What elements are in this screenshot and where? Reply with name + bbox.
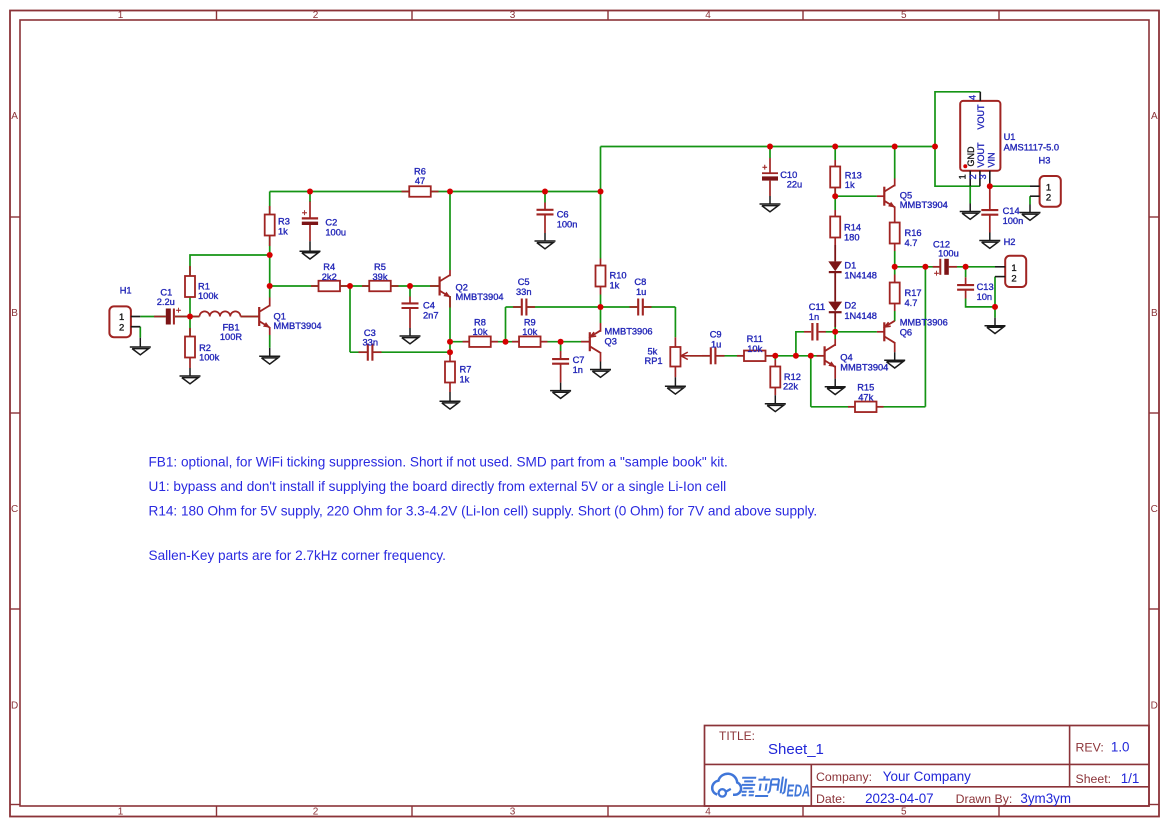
resistor R1 (185, 276, 195, 297)
svg-text:R16: R16 (905, 228, 922, 238)
title block outline (705, 726, 1150, 807)
svg-text:R8: R8 (474, 317, 486, 327)
wire U1 VOUT loop top (935, 92, 980, 147)
svg-text:1u: 1u (636, 287, 646, 297)
ground under RP1 (674, 377, 676, 386)
svg-text:C6: C6 (557, 210, 569, 220)
svg-text:R13: R13 (845, 170, 862, 180)
svg-text:+: + (176, 306, 181, 316)
junction dot 23 (892, 264, 898, 270)
junction dot 18 (808, 353, 814, 359)
capacitor C2 (309, 202, 311, 219)
svg-text:100n: 100n (1003, 216, 1024, 226)
svg-text:Company:: Company: (816, 770, 872, 784)
transistor Q6 PNP (883, 322, 885, 341)
svg-text:C1: C1 (160, 287, 172, 297)
capacitor C7 (552, 358, 569, 360)
wire R15 right vertical to output node (924, 267, 926, 407)
svg-text:C: C (1151, 504, 1158, 515)
connector H1 (109, 306, 130, 337)
svg-text:1: 1 (957, 174, 967, 179)
wire Q5 collector vertical (894, 147, 896, 179)
svg-text:180: 180 (844, 232, 860, 242)
capacitor C4 (402, 302, 419, 304)
wire C3 row right (374, 351, 450, 353)
svg-text:R12: R12 (784, 372, 801, 382)
wire C10 stub (769, 147, 771, 159)
wire Q6 base (835, 331, 877, 333)
ground under H3 pin2 (1029, 205, 1031, 213)
resistor R10 (596, 266, 606, 287)
frame row ticks (10, 216, 20, 218)
svg-text:R3: R3 (278, 217, 290, 227)
wire C3 row left (350, 351, 367, 353)
EasyEDA logo hanzi li (755, 776, 771, 796)
junction dot 24 (922, 264, 928, 270)
resistor R9 (519, 336, 541, 347)
ground under R2 (189, 368, 191, 376)
ground under Q1 emitter (269, 348, 271, 357)
svg-text:A: A (1151, 111, 1158, 122)
svg-text:D1: D1 (844, 260, 856, 270)
wire C8 right to RP1 corner (644, 306, 675, 308)
svg-text:Q4: Q4 (840, 353, 852, 363)
svg-text:2023-04-07: 2023-04-07 (865, 791, 934, 806)
title block logo cell divider (810, 764, 812, 806)
svg-text:1n: 1n (809, 312, 819, 322)
capacitor C12 (933, 266, 941, 268)
connector H2 (1005, 256, 1026, 287)
junction dot 6 (407, 283, 413, 289)
svg-text:100k: 100k (199, 352, 220, 362)
wire C11 left branch (796, 332, 804, 356)
wire U1 GND pin to ground (969, 186, 971, 203)
svg-text:100u: 100u (325, 228, 346, 238)
svg-text:C8: C8 (634, 277, 646, 287)
junction dot 27 (987, 183, 993, 189)
diode D2 1N4148 (828, 302, 842, 312)
svg-text:+: + (762, 163, 767, 173)
junction dot 9 (447, 349, 453, 355)
junction dot 21 (832, 329, 838, 335)
wire output node row to C12 (895, 266, 941, 268)
svg-text:100u: 100u (938, 249, 959, 259)
svg-text:Sallen-Key parts are for 2.7kH: Sallen-Key parts are for 2.7kHz corner f… (149, 548, 446, 563)
junction dot 17 (793, 353, 799, 359)
ground under C7 (560, 383, 562, 391)
svg-text:100k: 100k (198, 291, 219, 301)
junction dot 15 (767, 144, 773, 150)
junction dot 26 (963, 264, 969, 270)
svg-text:4.7: 4.7 (905, 238, 918, 248)
regulator U1 AMS1117-5.0 (960, 101, 1000, 171)
capacitor C6 (537, 209, 554, 211)
svg-text:GND: GND (966, 146, 976, 167)
svg-text:D: D (1151, 701, 1158, 712)
capacitor C9 (710, 347, 712, 364)
svg-text:10k: 10k (473, 327, 488, 337)
svg-text:B: B (11, 308, 18, 319)
junction dot 19 (832, 144, 838, 150)
svg-text:D2: D2 (844, 301, 856, 311)
resistor R6 (409, 186, 431, 197)
junction dot 5 (347, 283, 353, 289)
svg-text:VIN: VIN (987, 152, 997, 167)
junction dot 3 (267, 283, 273, 289)
svg-text:R9: R9 (524, 317, 536, 327)
svg-text:1N4148: 1N4148 (844, 311, 877, 321)
junction dot 8 (447, 339, 453, 345)
junction dot 1 (187, 314, 193, 320)
ground under C4 (409, 328, 411, 336)
EasyEDA logo hanzi chuang (767, 777, 786, 794)
wire C11 right to D2 node (826, 331, 836, 333)
wire Q4 base node down to R15 (810, 356, 812, 407)
svg-text:1u: 1u (711, 340, 721, 350)
wire R1 bottom / C1-FB1 node / R2 top vertical (189, 276, 191, 337)
svg-text:Q5: Q5 (900, 190, 912, 200)
svg-text:4: 4 (968, 95, 978, 100)
ferrite bead FB1 (200, 311, 241, 316)
svg-text:FB1: optional, for WiFi tickin: FB1: optional, for WiFi ticking suppress… (149, 455, 728, 470)
capacitor C8 (637, 299, 639, 316)
svg-text:10k: 10k (522, 327, 537, 337)
junction dot 11 (542, 189, 548, 195)
wire D2 to C11 node to Q4 collector (834, 327, 836, 339)
title block row divider 2 (811, 786, 1149, 788)
wire C5 C8 row middle segment (528, 306, 637, 308)
svg-text:5: 5 (901, 10, 907, 21)
junction dot 7 (447, 189, 453, 195)
svg-text:+: + (934, 268, 939, 278)
svg-text:MMBT3904: MMBT3904 (274, 321, 322, 331)
wire C7 stub (560, 342, 562, 351)
wire C2 stub (309, 192, 311, 203)
svg-text:Sheet_1: Sheet_1 (768, 741, 824, 758)
wire Q1 emitter to ground (269, 335, 271, 348)
svg-text:C: C (11, 504, 18, 515)
svg-text:5: 5 (901, 807, 907, 818)
svg-text:1k: 1k (845, 180, 855, 190)
junction dot 12 (558, 339, 564, 345)
svg-text:REV:: REV: (1076, 741, 1104, 755)
wire H1 pin1 to C1 left (140, 316, 166, 318)
svg-text:C4: C4 (423, 301, 435, 311)
svg-text:3: 3 (510, 10, 516, 21)
wire C13 top stub (965, 267, 967, 278)
svg-text:2: 2 (119, 322, 124, 333)
ground under R7 (449, 392, 451, 401)
svg-text:33n: 33n (516, 287, 532, 297)
resistor R17 (890, 283, 900, 304)
capacitor C11 (811, 323, 813, 341)
wire R10 bottom to node (600, 295, 602, 308)
potentiometer RP1 (670, 347, 680, 367)
wire R17 bottom to Q6 emitter (894, 311, 896, 321)
svg-text:Q1: Q1 (274, 311, 286, 321)
svg-text:R4: R4 (323, 262, 335, 272)
ground under C6 (544, 233, 546, 241)
svg-text:MMBT3906: MMBT3906 (605, 327, 653, 337)
resistor R7 (445, 362, 455, 383)
wire C3 left vertical to R4 R5 node (349, 286, 351, 352)
wire supply rail2 y191 (270, 191, 601, 193)
capacitor C1 (154, 316, 166, 318)
wire R12 stub (774, 356, 776, 360)
wire C5 C8 row left segment (506, 306, 521, 308)
capacitor C10 (769, 158, 771, 173)
svg-text:2: 2 (313, 807, 319, 818)
svg-text:MMBT3904: MMBT3904 (456, 292, 504, 302)
svg-text:2: 2 (968, 174, 978, 179)
svg-text:2: 2 (1046, 193, 1051, 204)
wire R4 R5 row to Q2 base (270, 285, 440, 287)
wire Q3 emitter vertical (600, 307, 602, 323)
wire RP1 top feed (674, 307, 676, 337)
svg-text:H1: H1 (120, 285, 132, 295)
svg-text:1k: 1k (610, 281, 620, 291)
svg-text:RP1: RP1 (645, 356, 663, 366)
svg-text:R7: R7 (460, 365, 472, 375)
svg-text:10n: 10n (977, 292, 993, 302)
svg-text:2.2u: 2.2u (157, 297, 175, 307)
resistor R16 (890, 223, 900, 244)
svg-text:U1: U1 (1004, 132, 1016, 142)
svg-text:2: 2 (1011, 273, 1016, 284)
svg-text:47: 47 (415, 176, 425, 186)
svg-text:H2: H2 (1004, 237, 1016, 247)
junction dot 14 (598, 304, 604, 310)
svg-text:R11: R11 (747, 334, 763, 344)
svg-text:FB1: FB1 (222, 322, 239, 332)
wire junction vertical R8 node to C3 node (449, 342, 451, 353)
svg-text:47k: 47k (858, 393, 873, 403)
svg-text:U1: bypass and don't install i: U1: bypass and don't install if supplyin… (149, 479, 727, 494)
svg-text:R5: R5 (374, 262, 386, 272)
resistor R11 (744, 351, 766, 362)
capacitor C3 (367, 344, 369, 361)
svg-text:Date:: Date: (816, 792, 845, 806)
wire R13 bottom node (834, 188, 836, 210)
frame column ticks (216, 11, 218, 21)
diode D1 1N4148 (834, 245, 836, 261)
resistor R13 (830, 167, 840, 188)
wire U1 bottom loop (935, 147, 980, 187)
svg-text:1: 1 (118, 10, 124, 21)
transistor Q2 (439, 277, 441, 296)
svg-text:C11: C11 (809, 302, 825, 312)
wire R8 R9 row to Q3 base (450, 341, 590, 343)
wire C6 stub (544, 192, 546, 203)
ground under C10 (769, 196, 771, 204)
svg-text:MMBT3904: MMBT3904 (900, 200, 948, 210)
svg-text:Sheet:: Sheet: (1076, 772, 1112, 786)
wire R15 row (811, 406, 926, 408)
connector H3 (1040, 176, 1061, 207)
wire RP1 wiper to C9 (690, 355, 710, 357)
wire R3 column / Q1 collector vertical (269, 192, 271, 298)
junction dot 10 (503, 339, 509, 345)
svg-text:EDA: EDA (787, 782, 811, 801)
capacitor C13 (957, 284, 974, 286)
resistor R5 (369, 281, 391, 292)
svg-text:100n: 100n (557, 220, 578, 230)
svg-text:H3: H3 (1039, 156, 1051, 166)
svg-text:C14: C14 (1003, 206, 1020, 216)
svg-text:1k: 1k (278, 227, 288, 237)
junction dot 22 (892, 144, 898, 150)
ground under U1 GND pin (969, 204, 971, 212)
capacitor C14 (981, 209, 998, 211)
resistor R12 (770, 367, 780, 388)
wire H2 pin2 down (994, 277, 996, 318)
svg-text:MMBT3904: MMBT3904 (840, 363, 888, 373)
svg-text:Q3: Q3 (605, 337, 617, 347)
svg-text:1: 1 (118, 807, 124, 818)
svg-text:MMBT3906: MMBT3906 (900, 318, 948, 328)
svg-text:C5: C5 (518, 277, 530, 287)
wire C4 stub (409, 286, 411, 297)
resistor R3 (265, 215, 275, 236)
svg-text:Your Company: Your Company (883, 769, 971, 784)
svg-text:3: 3 (978, 174, 988, 179)
junction dot 4 (307, 189, 313, 195)
resistor R4 (319, 281, 341, 292)
svg-text:22u: 22u (787, 180, 803, 190)
svg-text:B: B (1151, 308, 1158, 319)
wire H3 pin2 to ground (1029, 196, 1031, 204)
svg-text:R2: R2 (199, 343, 211, 353)
svg-text:R10: R10 (610, 271, 627, 281)
transistor Q4 (823, 346, 825, 365)
wire C5 left vertical (505, 307, 507, 342)
wire R1 top to R3 bottom node (190, 255, 270, 276)
wire Q2 collector vertical (449, 192, 451, 271)
junction dot 16 (772, 353, 778, 359)
wire U1 VIN to H3 pin1 (990, 185, 1030, 187)
transistor Q3 PNP (589, 332, 591, 351)
svg-text:AMS1117-5.0: AMS1117-5.0 (1004, 143, 1059, 153)
ground under C2 (309, 241, 311, 251)
wire C12 to H2 pin1 (949, 266, 995, 268)
svg-text:R14: R14 (844, 223, 861, 233)
wire rail1-rail2 vertical / R10 column (600, 147, 602, 259)
transistor Q1 (258, 307, 260, 326)
resistor R14 (830, 217, 840, 238)
svg-text:C7: C7 (573, 355, 585, 365)
svg-text:C2: C2 (325, 218, 337, 228)
svg-text:R14: 180 Ohm for 5V supply, 22: R14: 180 Ohm for 5V supply, 220 Ohm for … (149, 504, 818, 519)
wire Q2 emitter vertical (449, 296, 451, 342)
svg-text:Drawn By:: Drawn By: (956, 792, 1013, 806)
resistor R8 (469, 336, 491, 347)
svg-text:100R: 100R (220, 332, 243, 342)
resistor R2 (185, 337, 195, 358)
ground under Q3 collector (600, 362, 602, 370)
svg-text:D: D (11, 701, 18, 712)
svg-text:Q2: Q2 (456, 282, 468, 292)
ground under H2 pin2 node (994, 318, 996, 326)
svg-text:C10: C10 (780, 170, 797, 180)
svg-text:R1: R1 (198, 281, 210, 291)
EasyEDA logo hanzi jia (740, 778, 756, 796)
wire FB1 right to Q1 base (241, 316, 260, 318)
svg-text:VOUT: VOUT (976, 142, 986, 168)
ground under C14 (989, 233, 991, 241)
junction dot 28 (992, 304, 998, 310)
junction dot 25 (932, 144, 938, 150)
wire C1 right to FB1 left (175, 316, 200, 318)
wire R16 bottom R17 top (894, 251, 896, 275)
svg-text:Q6: Q6 (900, 328, 912, 338)
capacitor C5 (521, 299, 523, 316)
svg-text:C9: C9 (710, 330, 722, 340)
ground under H1 pin2 (139, 338, 141, 347)
svg-text:C13: C13 (977, 282, 994, 292)
ground under R12 (774, 395, 776, 404)
svg-text:R6: R6 (414, 166, 426, 176)
svg-text:1.0: 1.0 (1111, 740, 1130, 755)
title block row divider 1 (705, 763, 1150, 765)
svg-text:C3: C3 (364, 328, 376, 338)
svg-text:TITLE:: TITLE: (719, 729, 755, 743)
svg-text:10k: 10k (747, 344, 762, 354)
svg-text:3ym3ym: 3ym3ym (1020, 791, 1071, 806)
wire Q5 base (835, 195, 877, 197)
svg-text:3: 3 (510, 807, 516, 818)
title block rev column divider (1069, 726, 1071, 787)
ground under Q4 emitter (834, 379, 836, 387)
wire R13 top stub (834, 147, 836, 161)
wire rail1 y146 (601, 146, 936, 148)
svg-text:4: 4 (705, 807, 711, 818)
svg-text:A: A (11, 111, 18, 122)
ground under Q6 collector (894, 352, 896, 360)
junction dot 20 (832, 193, 838, 199)
resistor R15 (855, 402, 877, 413)
svg-text:2k2: 2k2 (322, 272, 337, 282)
svg-text:1N4148: 1N4148 (844, 270, 877, 280)
svg-text:1k: 1k (460, 374, 470, 384)
wire C9 to R11 to Q4 base (717, 355, 825, 357)
wire C13 bottom to H2 node (966, 299, 995, 307)
junction dot 2 (267, 252, 273, 258)
svg-text:R17: R17 (905, 288, 922, 298)
svg-text:4.7: 4.7 (905, 298, 918, 308)
transistor Q5 (883, 187, 885, 206)
svg-text:2: 2 (313, 10, 319, 21)
svg-text:22k: 22k (783, 382, 798, 392)
svg-text:1/1: 1/1 (1121, 771, 1140, 786)
svg-text:33n: 33n (363, 338, 379, 348)
junction dot 13 (598, 189, 604, 195)
svg-text:+: + (302, 208, 308, 219)
svg-text:R15: R15 (857, 383, 874, 393)
svg-text:1n: 1n (573, 365, 583, 375)
EasyEDA logo cloud icon (712, 774, 741, 795)
svg-text:2n7: 2n7 (423, 311, 439, 321)
svg-text:VOUT: VOUT (976, 104, 986, 130)
wire H1 pin2 down (139, 327, 141, 338)
svg-text:4: 4 (705, 10, 711, 21)
svg-text:39k: 39k (373, 272, 388, 282)
